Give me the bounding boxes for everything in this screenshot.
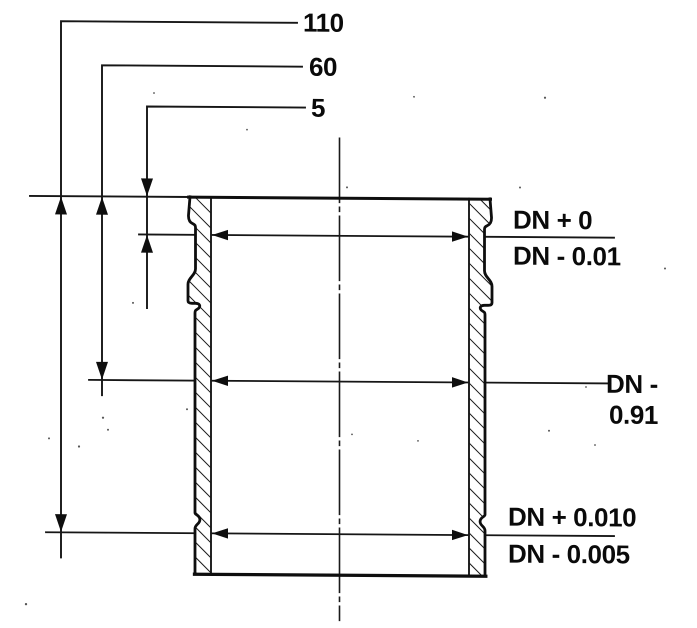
svg-text:DN + 0: DN + 0 — [513, 205, 592, 236]
svg-text:DN + 0.010: DN + 0.010 — [508, 502, 636, 533]
svg-text:DN -: DN - — [606, 369, 658, 399]
svg-text:5: 5 — [311, 93, 325, 123]
svg-text:110: 110 — [303, 8, 344, 38]
svg-text:60: 60 — [309, 52, 337, 82]
svg-text:DN - 0.005: DN - 0.005 — [508, 539, 630, 570]
svg-text:0.91: 0.91 — [609, 400, 658, 430]
svg-text:DN - 0.01: DN - 0.01 — [513, 241, 621, 272]
